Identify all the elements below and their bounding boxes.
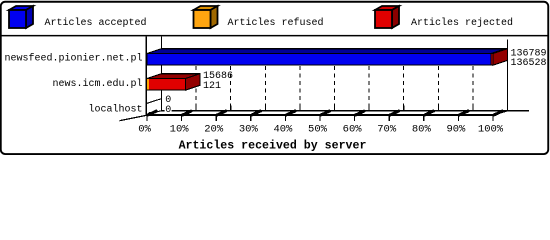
svg-text:70%: 70% bbox=[377, 124, 397, 136]
svg-text:121: 121 bbox=[203, 81, 221, 92]
svg-text:Articles received by server: Articles received by server bbox=[179, 140, 367, 153]
svg-text:0: 0 bbox=[165, 105, 171, 116]
svg-text:Articles accepted: Articles accepted bbox=[45, 17, 147, 29]
svg-text:90%: 90% bbox=[446, 124, 466, 136]
svg-text:30%: 30% bbox=[239, 124, 259, 136]
svg-text:newsfeed.pionier.net.pl: newsfeed.pionier.net.pl bbox=[4, 53, 142, 65]
svg-text:0%: 0% bbox=[138, 124, 151, 136]
svg-text:100%: 100% bbox=[478, 124, 504, 136]
svg-text:news.icm.edu.pl: news.icm.edu.pl bbox=[52, 78, 142, 90]
svg-text:40%: 40% bbox=[273, 124, 293, 136]
svg-text:localhost: localhost bbox=[88, 104, 142, 116]
svg-text:10%: 10% bbox=[170, 124, 190, 136]
svg-text:Articles rejected: Articles rejected bbox=[411, 17, 513, 29]
svg-text:Articles refused: Articles refused bbox=[228, 17, 324, 29]
svg-text:80%: 80% bbox=[412, 124, 432, 136]
svg-text:60%: 60% bbox=[343, 124, 363, 136]
svg-text:20%: 20% bbox=[204, 124, 224, 136]
svg-text:136528: 136528 bbox=[511, 58, 547, 69]
svg-text:50%: 50% bbox=[308, 124, 328, 136]
